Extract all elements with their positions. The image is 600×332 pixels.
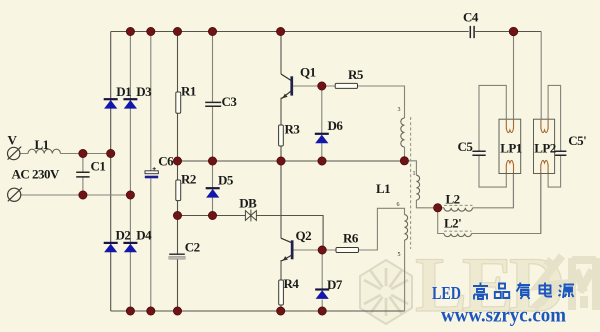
svg-text:LP2: LP2 — [534, 141, 556, 156]
svg-text:C4: C4 — [463, 10, 479, 25]
svg-text:R6: R6 — [343, 231, 359, 246]
svg-text:D6: D6 — [328, 118, 344, 133]
svg-text:C5': C5' — [568, 133, 586, 148]
svg-text:6: 6 — [397, 202, 400, 208]
svg-text:L1: L1 — [376, 181, 390, 196]
svg-text:D1: D1 — [116, 84, 131, 99]
svg-text:3: 3 — [398, 107, 401, 113]
svg-text:D5: D5 — [218, 173, 234, 188]
svg-text:R3: R3 — [285, 122, 301, 137]
svg-text:Q2: Q2 — [296, 228, 312, 243]
svg-text:DB: DB — [239, 196, 257, 211]
svg-text:C1: C1 — [91, 159, 106, 174]
svg-text:LP1: LP1 — [500, 141, 522, 156]
svg-text:R4: R4 — [284, 276, 300, 291]
svg-text:L2: L2 — [446, 192, 460, 207]
svg-text:L2': L2' — [444, 216, 461, 231]
svg-text:R1: R1 — [181, 84, 196, 99]
svg-text:R2: R2 — [181, 172, 196, 187]
svg-text:C3: C3 — [222, 94, 238, 109]
svg-text:L1: L1 — [35, 137, 49, 152]
svg-text:LED: LED — [432, 283, 461, 303]
svg-text:1: 1 — [413, 171, 416, 177]
svg-text:D3: D3 — [136, 84, 152, 99]
svg-text:D7: D7 — [327, 277, 343, 292]
svg-text:C5: C5 — [458, 139, 474, 154]
svg-text:5: 5 — [398, 252, 401, 258]
svg-text:C2: C2 — [185, 240, 200, 255]
svg-text:D4: D4 — [136, 228, 152, 243]
svg-text:AC 230V: AC 230V — [12, 166, 61, 181]
svg-text:R5: R5 — [348, 67, 364, 82]
svg-text:Q1: Q1 — [300, 65, 316, 80]
svg-text:C6: C6 — [158, 154, 174, 169]
svg-text:V: V — [8, 133, 18, 148]
svg-text:www.szryc.com: www.szryc.com — [441, 305, 566, 327]
svg-text:D2: D2 — [116, 228, 131, 243]
